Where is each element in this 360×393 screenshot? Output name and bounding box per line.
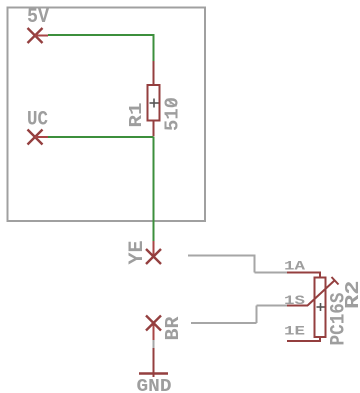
pin stub 5V — [35, 35, 48, 37]
wire UC net horizontal — [48, 136, 154, 138]
pin stub UC — [35, 136, 48, 138]
svg-text:R1: R1 — [127, 102, 147, 127]
potentiometer R2 pin 1S lead — [287, 305, 308, 307]
wire YE to 1A seg3 — [255, 272, 288, 274]
svg-text:YE: YE — [126, 241, 149, 265]
value 510 slashed-zero mark — [167, 99, 177, 106]
wire 5V net vertical — [153, 35, 155, 61]
potentiometer R2 pin 1E lead — [287, 337, 320, 341]
pin BR cross — [146, 316, 161, 331]
potentiometer R2 plus mark — [317, 303, 325, 311]
potentiometer R2 wiper arrow — [308, 277, 339, 306]
pin UC — [28, 130, 43, 145]
wire BR to 1S seg2 — [256, 306, 258, 324]
frame box — [8, 8, 206, 222]
resistor R1 body — [148, 85, 160, 121]
wire BR to 1S seg3 — [257, 305, 288, 307]
wire net vertical to YE — [153, 137, 155, 241]
ground pin — [153, 348, 155, 377]
svg-text:R2: R2 — [342, 281, 360, 310]
pin YE cross — [146, 249, 161, 264]
pin BR stub — [153, 323, 155, 340]
svg-text:GND: GND — [137, 377, 172, 393]
wire YE to 1A seg2 — [254, 256, 256, 273]
resistor R1 pin 1 — [153, 61, 155, 85]
wire BR to GND — [153, 340, 155, 348]
wire 5V net horizontal — [48, 34, 155, 36]
svg-text:UC: UC — [27, 109, 48, 132]
wire YE to 1A seg1 — [188, 255, 256, 257]
pin YE stub — [153, 241, 155, 257]
svg-text:BR: BR — [162, 316, 184, 341]
svg-text:1A: 1A — [284, 259, 305, 274]
potentiometer R2 body — [315, 278, 326, 338]
resistor R1 pin 2 — [153, 121, 155, 137]
wire BR to 1S seg1 — [191, 322, 257, 324]
svg-text:1E: 1E — [284, 324, 305, 339]
svg-text:5V: 5V — [27, 6, 49, 29]
svg-text:510: 510 — [162, 97, 184, 131]
pin 5V — [28, 28, 43, 43]
potentiometer R2 pin 1A lead — [287, 273, 320, 278]
resistor R1 plus mark — [150, 99, 159, 108]
ground bar — [139, 372, 168, 374]
